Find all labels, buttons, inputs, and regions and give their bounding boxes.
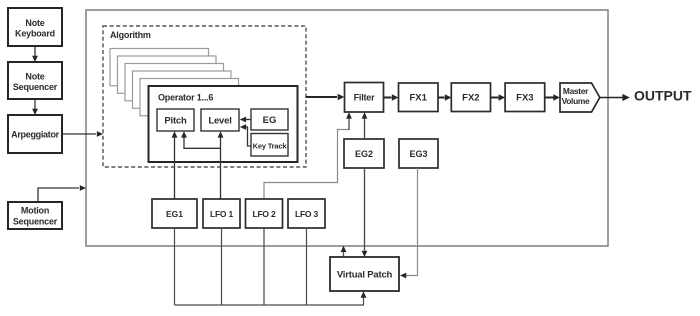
svg-text:OUTPUT: OUTPUT	[634, 88, 692, 104]
feedback wire to Virtual Patch	[175, 291, 367, 305]
svg-text:EG: EG	[263, 115, 277, 126]
box EG2	[344, 139, 384, 168]
box Arpeggiator	[8, 115, 62, 153]
svg-text:Algorithm: Algorithm	[110, 30, 151, 40]
box Level	[201, 109, 239, 131]
svg-text:EG1: EG1	[166, 209, 183, 219]
svg-text:Arpeggiator: Arpeggiator	[11, 130, 60, 140]
svg-text:Virtual Patch: Virtual Patch	[337, 270, 393, 281]
wire Arpeggiator to Algorithm	[62, 131, 103, 137]
box EG3	[399, 139, 438, 168]
signal wire FX1 to FX2	[438, 94, 451, 101]
operator stack sheet 4	[133, 71, 232, 108]
box LFO 1	[203, 199, 240, 228]
svg-text:LFO 3: LFO 3	[295, 209, 319, 219]
wire EG3 to Virtual Patch	[400, 168, 418, 278]
svg-text:Motion: Motion	[21, 206, 49, 216]
box Motion Sequencer	[8, 202, 62, 229]
svg-text:Operator 1...6: Operator 1...6	[158, 93, 213, 103]
box FX2	[451, 83, 490, 112]
Algorithm dashed box	[103, 26, 306, 167]
feedback wire LFO 3 down	[306, 228, 308, 305]
svg-text:EG2: EG2	[355, 149, 373, 159]
box EG1	[152, 199, 197, 228]
box LFO 2	[246, 199, 283, 228]
signal wire FX2 to FX3	[491, 94, 506, 101]
svg-text:Sequencer: Sequencer	[13, 82, 58, 92]
feedback wire LFO 2 down	[263, 228, 265, 305]
box Note Keyboard	[8, 8, 62, 46]
box Virtual Patch	[330, 257, 399, 291]
operator stack sheet 1	[110, 49, 209, 86]
feedback wire EG1 down	[174, 228, 176, 305]
box FX3	[505, 83, 545, 112]
wire EG1 to Pitch	[172, 131, 178, 199]
svg-text:Volume: Volume	[562, 96, 590, 106]
box Pitch	[157, 109, 194, 131]
box Filter	[345, 83, 384, 113]
operator stack sheet 3	[125, 64, 224, 101]
signal wire Algorithm to Filter	[306, 94, 345, 101]
box Key Track	[251, 134, 288, 157]
svg-text:LFO 1: LFO 1	[210, 209, 234, 219]
container box	[86, 10, 608, 246]
svg-text:Sequencer: Sequencer	[13, 217, 58, 227]
wire EG2 to Virtual Patch	[362, 168, 368, 257]
box FX1	[399, 83, 439, 112]
signal wire FX3 to Master Volume	[545, 94, 560, 101]
wire Key Track to Level	[240, 124, 251, 146]
operator stack sheet 5	[140, 79, 239, 116]
wire LFO1 to Level	[218, 131, 224, 199]
wire LFO1 branch to Pitch	[181, 131, 220, 148]
feedback wire LFO 1 down	[221, 228, 223, 305]
svg-text:Note: Note	[25, 72, 44, 82]
svg-text:FX1: FX1	[409, 93, 427, 104]
wire EG2 to Filter	[362, 112, 368, 139]
svg-text:FX3: FX3	[516, 93, 533, 104]
signal wire Master Volume to OUTPUT	[600, 94, 630, 101]
box LFO 3	[288, 199, 325, 228]
svg-text:Master: Master	[563, 86, 589, 96]
svg-text:FX2: FX2	[462, 93, 479, 104]
svg-text:Keyboard: Keyboard	[15, 28, 55, 38]
wire EG to Level	[240, 117, 251, 123]
svg-text:EG3: EG3	[409, 149, 427, 159]
operator stack sheet 2	[118, 56, 217, 93]
svg-text:Filter: Filter	[354, 93, 376, 103]
wire Note Sequencer to Arpeggiator	[32, 99, 38, 115]
wire Virtual Patch to container	[341, 246, 347, 257]
svg-text:Pitch: Pitch	[164, 116, 187, 127]
svg-text:LFO 2: LFO 2	[252, 209, 276, 219]
svg-text:Level: Level	[208, 116, 231, 127]
wire LFO2 to Filter	[264, 112, 352, 199]
wire Motion Sequencer to container	[38, 185, 86, 202]
signal wire Filter to FX1	[384, 94, 398, 101]
box Operator 1...6	[149, 86, 298, 162]
box EG	[251, 109, 288, 130]
svg-text:Note: Note	[25, 18, 44, 28]
wire Note Keyboard to Note Sequencer	[32, 46, 38, 62]
svg-text:Key Track: Key Track	[253, 142, 288, 151]
box Note Sequencer	[8, 62, 62, 99]
Master Volume pentagon	[560, 83, 600, 112]
